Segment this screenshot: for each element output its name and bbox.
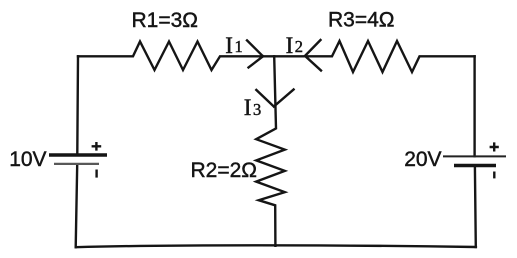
svg-text:I2: I2 xyxy=(286,33,303,58)
svg-text:20V: 20V xyxy=(404,148,441,171)
svg-text:R3=4Ω: R3=4Ω xyxy=(328,9,395,32)
svg-text:R2=2Ω: R2=2Ω xyxy=(191,159,258,182)
svg-text:I1: I1 xyxy=(225,33,242,58)
svg-text:R1=3Ω: R1=3Ω xyxy=(132,9,199,32)
svg-text:I3: I3 xyxy=(244,95,261,120)
svg-text:10V: 10V xyxy=(9,148,46,171)
